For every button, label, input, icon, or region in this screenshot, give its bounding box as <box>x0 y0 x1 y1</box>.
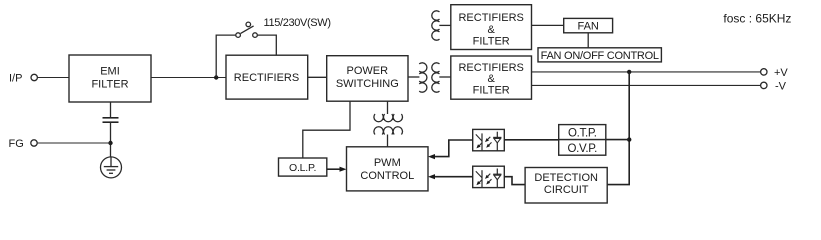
transformer T1 secondary winding <box>432 63 440 92</box>
wire top opto to OTP/OVP <box>504 139 558 141</box>
ground protective earth symbol <box>101 157 122 178</box>
block FAN <box>564 18 613 32</box>
block RECTIFIERS & FILTER (main output) <box>451 56 532 99</box>
wire power switching to transformer primary <box>408 76 419 78</box>
svg-text:RECTIFIERS: RECTIFIERS <box>458 62 523 74</box>
wire EMI filter bottom to capacitor <box>110 102 112 117</box>
wire power switching to PWM transformer <box>387 101 389 114</box>
svg-text:115/230V(SW): 115/230V(SW) <box>264 17 331 29</box>
block FAN ON/OFF CONTROL <box>538 48 661 62</box>
svg-text:POWER: POWER <box>347 65 389 77</box>
wire OTP/OVP to sense line <box>606 139 629 141</box>
svg-text:I/P: I/P <box>9 73 22 85</box>
wire voltage sense vertical <box>607 72 629 185</box>
wire power switching to OLP path <box>303 101 350 158</box>
optocoupler U1 top <box>473 129 505 150</box>
svg-text:O.V.P.: O.V.P. <box>568 143 598 155</box>
svg-text:RECTIFIERS: RECTIFIERS <box>234 72 299 84</box>
wire switch right branch to rectifiers top <box>257 35 276 55</box>
svg-text:&: & <box>488 24 496 36</box>
node I/P input terminal <box>9 73 37 85</box>
node junction OTP/OVP sense <box>627 137 631 141</box>
wire rectifiers to power switching <box>308 76 327 78</box>
wire PWM transformer to PWM control <box>387 135 389 147</box>
node junction at switch tap <box>214 75 218 79</box>
svg-text:CIRCUIT: CIRCUIT <box>544 184 589 196</box>
svg-text:O.L.P.: O.L.P. <box>289 162 316 174</box>
block O.L.P. <box>279 158 327 176</box>
transformer T1 primary winding <box>419 63 427 92</box>
wire FG terminal to junction <box>37 142 110 144</box>
svg-text:DETECTION: DETECTION <box>534 172 598 184</box>
wire +V output line <box>532 71 761 73</box>
svg-text:&: & <box>488 73 496 85</box>
switch S1 115/230V selector <box>236 22 257 37</box>
wire bottom opto to detection circuit <box>504 177 525 185</box>
wire capacitor to FG junction and ground <box>110 122 112 157</box>
node sense junction on +V <box>627 70 631 74</box>
wire FAN to fan control <box>587 33 589 48</box>
svg-text:PWM: PWM <box>374 157 401 169</box>
svg-text:FG: FG <box>9 138 24 150</box>
block O.T.P. <box>559 125 606 140</box>
block RECTIFIERS & FILTER (fan) <box>451 5 532 50</box>
block POWER SWITCHING <box>327 56 408 101</box>
svg-text:FILTER: FILTER <box>473 84 510 96</box>
optocoupler U2 bottom <box>473 166 505 187</box>
wire I/P to EMI filter <box>37 77 69 79</box>
svg-text:EMI: EMI <box>100 66 120 78</box>
svg-text:+V: +V <box>774 67 788 79</box>
svg-text:CONTROL: CONTROL <box>360 170 414 182</box>
svg-text:FAN ON/OFF CONTROL: FAN ON/OFF CONTROL <box>541 50 659 62</box>
block EMI FILTER <box>69 55 151 102</box>
svg-text:fosc : 65KHz: fosc : 65KHz <box>723 11 791 25</box>
transformer T1 fan auxiliary winding <box>432 11 440 40</box>
wire EMI filter to rectifiers <box>151 77 226 79</box>
svg-text:RECTIFIERS: RECTIFIERS <box>458 12 523 24</box>
node FG terminal <box>9 138 38 150</box>
svg-text:O.T.P.: O.T.P. <box>568 128 597 140</box>
wire -V output line <box>532 84 761 86</box>
svg-text:FAN: FAN <box>577 21 598 33</box>
transformer T2 drive winding top <box>374 114 403 122</box>
wire secondary to rectifiers and filter <box>439 76 451 78</box>
block PWM CONTROL <box>347 147 429 191</box>
block RECTIFIERS <box>226 55 308 99</box>
transformer T2 drive winding bottom <box>374 127 403 135</box>
wire fan rectifiers to FAN <box>532 24 564 26</box>
wire bottom opto to PWM with arrow <box>428 174 473 179</box>
block O.V.P. <box>559 140 606 156</box>
capacitor Y-cap <box>103 118 119 122</box>
svg-text:-V: -V <box>775 81 787 93</box>
svg-text:FILTER: FILTER <box>91 79 128 91</box>
wire top opto to PWM with arrow <box>428 140 473 159</box>
node +V terminal <box>761 67 789 79</box>
wire switch left branch <box>216 35 236 77</box>
svg-text:FILTER: FILTER <box>473 36 510 48</box>
node -V terminal <box>761 81 787 93</box>
wire fan winding to fan rectifiers <box>439 24 451 26</box>
node FG junction <box>108 141 112 145</box>
svg-text:SWITCHING: SWITCHING <box>336 78 399 90</box>
wire OLP to PWM control with arrow <box>327 167 347 172</box>
block DETECTION CIRCUIT <box>525 168 607 204</box>
